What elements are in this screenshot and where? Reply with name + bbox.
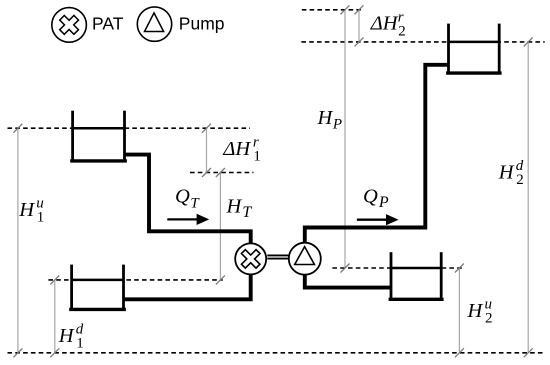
shaft coupling between PAT and pump bbox=[267, 255, 288, 258]
legend Pump symbol bbox=[137, 7, 171, 41]
dimension line delta-H1r bbox=[202, 124, 211, 177]
dashed level line upper-left reservoir bbox=[8, 127, 251, 129]
dashed datum line bottom bbox=[8, 352, 546, 354]
dimension line HP bbox=[341, 5, 350, 272]
reservoir tank lower-left bbox=[69, 265, 126, 310]
flow arrow QP bbox=[357, 214, 399, 225]
dashed level line delta-H1r lower bbox=[190, 172, 254, 174]
reservoir tank upper-left bbox=[70, 111, 127, 161]
dashed level line lower-right reservoir bbox=[332, 267, 462, 269]
legend PAT symbol bbox=[52, 8, 87, 43]
dashed level line lower-left reservoir bbox=[48, 279, 222, 281]
dimension line H2u bbox=[455, 264, 464, 358]
pipe from upper-left reservoir to PAT bbox=[125, 155, 251, 243]
svg-text:PAT: PAT bbox=[92, 13, 124, 33]
dashed level line top-right upper bbox=[302, 9, 361, 11]
dimension line H1u bbox=[13, 124, 22, 358]
PAT unit bbox=[235, 243, 266, 274]
dimension line delta-H2r bbox=[355, 5, 364, 46]
pipe from pump to upper-right reservoir bbox=[305, 65, 449, 243]
dashed level line upper-right reservoir bbox=[301, 41, 544, 43]
pipe from pump to lower-right reservoir bbox=[305, 275, 391, 288]
dimension line H1d bbox=[50, 275, 59, 357]
dimension line HT bbox=[216, 168, 225, 284]
reservoir tank upper-right bbox=[446, 24, 502, 74]
pipe from PAT to lower-left reservoir bbox=[124, 275, 251, 300]
reservoir tank lower-right bbox=[389, 252, 444, 299]
flow arrow QT bbox=[167, 214, 209, 225]
dimension line H2d bbox=[524, 37, 533, 357]
svg-text:Pump: Pump bbox=[179, 13, 225, 33]
pump unit bbox=[289, 243, 321, 275]
